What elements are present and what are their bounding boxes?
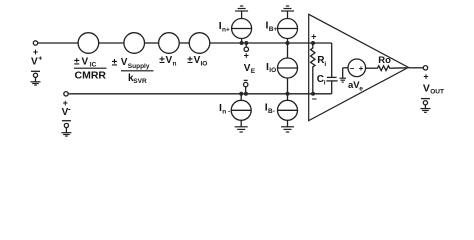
junction dot VE+	[244, 41, 248, 45]
op-amp U1 triangle	[309, 14, 409, 120]
svg-text:n: n	[173, 60, 177, 67]
ground V-	[61, 121, 71, 136]
ground V+	[31, 71, 41, 85]
svg-text:Ro: Ro	[378, 55, 391, 66]
svg-text:−: −	[312, 94, 317, 104]
svg-text:IC: IC	[90, 62, 97, 69]
svg-text:±: ±	[159, 55, 165, 66]
junction dot IB-	[286, 92, 290, 96]
svg-text:n+: n+	[222, 27, 230, 34]
junction dot In+ / top rail	[240, 41, 244, 45]
junction dot Ri top	[311, 41, 315, 45]
svg-text:±: ±	[187, 55, 193, 66]
wire aVe to Ro	[366, 67, 377, 69]
svg-text:B+: B+	[269, 26, 278, 33]
resistor Ri	[311, 43, 315, 94]
svg-text:-: -	[68, 105, 71, 114]
wire op-amp output	[408, 67, 423, 69]
wire IB+ to IIO	[287, 43, 289, 58]
svg-text:n -: n -	[222, 108, 230, 115]
ground aVe	[340, 78, 347, 82]
svg-text:SVR: SVR	[133, 78, 147, 85]
dependent source aVe	[343, 59, 366, 78]
svg-text:V: V	[82, 57, 89, 68]
svg-text:i: i	[324, 80, 326, 87]
svg-text:±: ±	[74, 57, 80, 68]
svg-text:IO: IO	[269, 67, 276, 74]
svg-text:IO: IO	[201, 61, 208, 68]
wire	[145, 42, 159, 44]
resistor Ro	[376, 66, 391, 71]
svg-text:OUT: OUT	[430, 89, 444, 96]
svg-text:+: +	[244, 51, 249, 61]
junction dot VE-	[244, 92, 248, 96]
node VE minus terminal	[244, 80, 248, 93]
svg-text:V: V	[244, 63, 251, 74]
svg-text:V: V	[31, 57, 38, 68]
svg-text:Supply: Supply	[128, 63, 150, 70]
ground below In-	[235, 120, 248, 132]
current source In-	[231, 94, 251, 121]
terminal V+	[33, 41, 37, 45]
wire	[99, 42, 124, 44]
svg-text:+: +	[311, 32, 316, 42]
terminal VOUT	[423, 66, 427, 70]
svg-text:e: e	[359, 85, 363, 92]
wire V+ to CMRR source	[38, 42, 78, 44]
wire VIO to op-amp	[210, 42, 313, 44]
voltage source VIO	[189, 33, 210, 54]
ground below IB-	[281, 120, 294, 132]
svg-text:−: −	[350, 64, 355, 73]
wire IIO to bottom rail	[287, 78, 289, 94]
svg-text:E: E	[251, 68, 256, 75]
svg-text:V: V	[121, 57, 128, 68]
voltage source V_IC/CMRR	[78, 33, 99, 54]
wire Ro to output	[391, 67, 407, 69]
current source IIO	[278, 58, 298, 78]
svg-text:V: V	[166, 55, 173, 66]
capacitor Ci branch	[313, 43, 338, 94]
wire	[179, 42, 189, 44]
svg-text:V: V	[423, 83, 430, 95]
voltage source V_supply/kSVR	[124, 33, 145, 54]
svg-text:+: +	[38, 56, 42, 63]
svg-text:CMRR: CMRR	[75, 70, 107, 82]
ground above IB+ (inverted)	[281, 6, 294, 18]
junction dot In-	[239, 92, 243, 96]
svg-text:+: +	[359, 64, 364, 73]
terminal V-	[64, 92, 68, 96]
current source IB-	[278, 94, 298, 121]
voltage source Vn	[159, 33, 180, 54]
svg-text:i: i	[324, 61, 326, 68]
current source IB+	[278, 19, 298, 44]
ground VOUT	[420, 99, 430, 113]
bottom rail wire	[68, 93, 313, 95]
current source In+	[232, 19, 252, 44]
svg-text:B-: B-	[268, 108, 275, 115]
junction dot IB+ / top rail	[286, 41, 290, 45]
svg-text:+: +	[423, 71, 428, 81]
node VE plus terminal	[244, 43, 248, 52]
junction dot Ri bottom	[311, 92, 315, 96]
ground above In+ (inverted)	[235, 6, 248, 18]
svg-text:±: ±	[112, 58, 118, 69]
